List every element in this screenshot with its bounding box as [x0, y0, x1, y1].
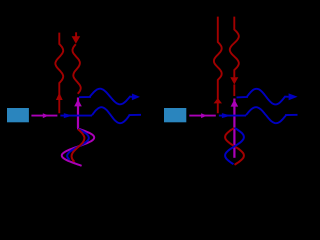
left recoil arrow (magenta, vertical up): [74, 98, 82, 129]
right wavepacket blue strand (right-first S): [225, 128, 244, 164]
left photon line red-up (wavy, arrow up): [55, 33, 63, 114]
left wavepacket blue strand: [67, 129, 89, 160]
left upper blue output wave (arrow right): [79, 89, 140, 105]
right wavepacket red strand (left-first S): [225, 128, 244, 165]
right source box: [164, 108, 186, 122]
left lower blue output wave: [92, 107, 141, 123]
left photon line red-down (arrow at top, wavy): [72, 32, 81, 94]
right lower blue output wave: [246, 107, 298, 123]
right photon line red-down (wavy, arrow down near bottom): [230, 17, 239, 96]
right recoil arrow (magenta, vertical up): [231, 99, 239, 158]
left source box: [7, 108, 29, 122]
left wavepacket magenta strand: [62, 128, 94, 166]
right scattered beam axis (blue, horizontal, arrow right): [219, 113, 246, 118]
left scattered beam axis (blue, horizontal, arrow right): [60, 113, 92, 118]
right photon line red-up (wavy, arrow up): [214, 17, 222, 114]
right upper blue output wave (arrow right): [237, 89, 298, 105]
left pump arrow (magenta, horizontal): [31, 113, 57, 118]
right pump arrow (magenta, horizontal): [189, 113, 216, 118]
left wavepacket red strand: [72, 129, 85, 162]
